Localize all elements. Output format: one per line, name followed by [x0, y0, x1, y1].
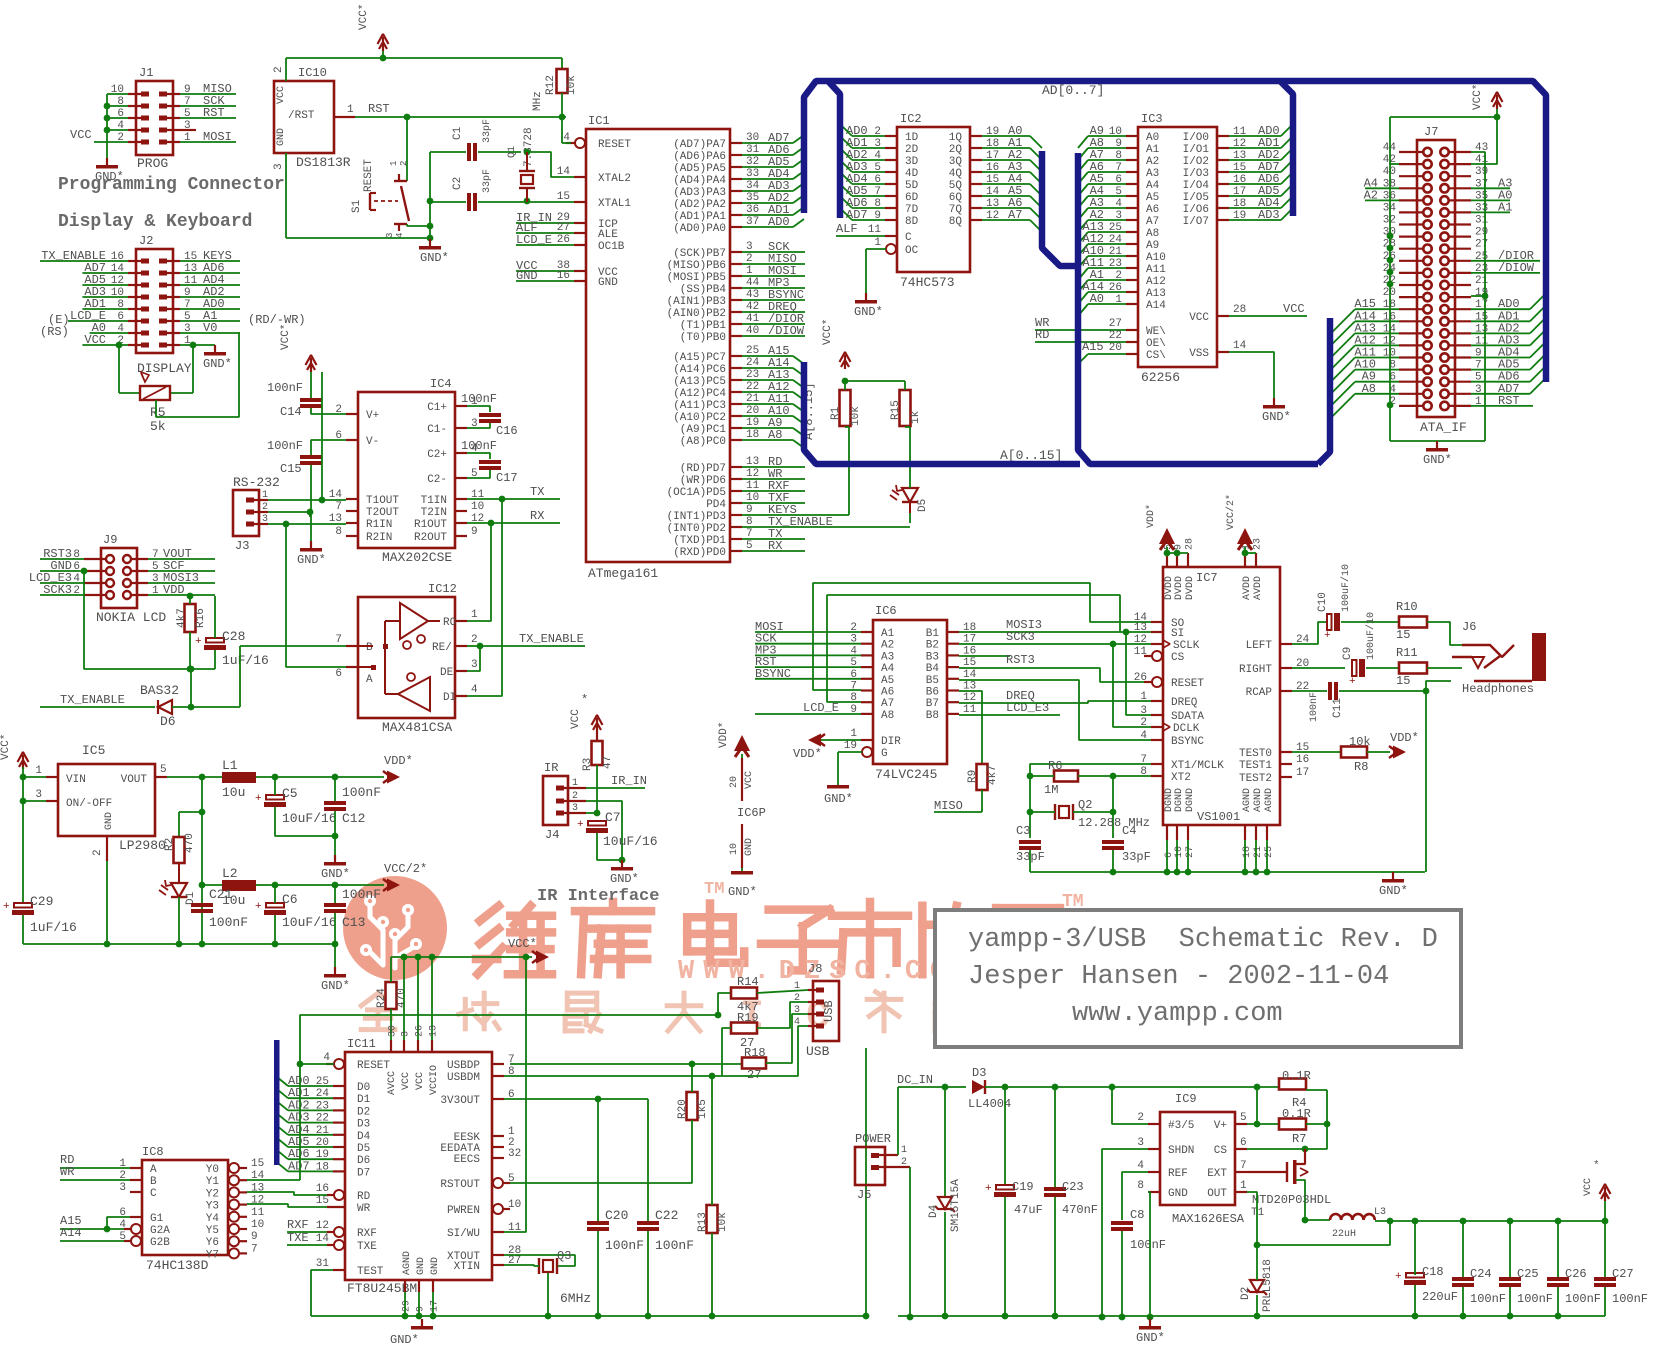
svg-text:B2: B2 — [926, 640, 939, 652]
svg-text:100uF/10: 100uF/10 — [1340, 564, 1352, 612]
svg-text:(AD3)PA3: (AD3)PA3 — [673, 187, 726, 199]
svg-text:SHDN: SHDN — [1168, 1145, 1194, 1157]
svg-text:IC12: IC12 — [428, 582, 457, 596]
svg-text:RESET: RESET — [363, 159, 375, 192]
svg-text:TX_ENABLE: TX_ENABLE — [519, 632, 584, 646]
svg-text:470: 470 — [396, 988, 408, 1008]
svg-text:A14: A14 — [1146, 300, 1166, 312]
svg-text:TM: TM — [704, 880, 724, 899]
svg-text:A10: A10 — [1146, 252, 1166, 264]
svg-text:RST3: RST3 — [1006, 653, 1035, 667]
svg-text:3: 3 — [794, 1005, 800, 1016]
svg-text:15: 15 — [251, 1158, 264, 1170]
svg-text:REF: REF — [1168, 1168, 1188, 1180]
svg-text:VSS: VSS — [1189, 348, 1209, 360]
svg-text:(AD6)PA6: (AD6)PA6 — [673, 151, 726, 163]
svg-text:V+: V+ — [1214, 1120, 1227, 1132]
svg-text:AGND: AGND — [1253, 788, 1264, 812]
svg-text:GND*: GND* — [1423, 453, 1452, 467]
svg-text:47: 47 — [602, 756, 614, 769]
svg-text:1k: 1k — [910, 410, 922, 424]
svg-text:R7: R7 — [1292, 1132, 1306, 1146]
svg-text:D5: D5 — [357, 1143, 370, 1155]
svg-text:RCAP: RCAP — [1246, 687, 1273, 699]
svg-text:MHz: MHz — [532, 91, 544, 111]
svg-text:Y3: Y3 — [206, 1201, 219, 1213]
svg-text:100nF: 100nF — [461, 439, 497, 453]
svg-text:AVDD: AVDD — [1253, 576, 1264, 600]
svg-text:4k7: 4k7 — [176, 608, 188, 628]
svg-text:Programming Connector: Programming Connector — [58, 175, 285, 195]
svg-text:XTIN: XTIN — [454, 1261, 480, 1273]
svg-text:1: 1 — [471, 609, 478, 621]
svg-text:IC3: IC3 — [1141, 112, 1163, 126]
svg-text:R10: R10 — [1396, 600, 1418, 614]
svg-text:C11: C11 — [1332, 698, 1344, 718]
svg-text:C22: C22 — [655, 1208, 678, 1223]
svg-text:VCC*: VCC* — [1472, 84, 1484, 110]
svg-text:3: 3 — [385, 233, 395, 238]
svg-text:AD[0..7]: AD[0..7] — [1042, 83, 1104, 98]
svg-text:*: * — [581, 693, 588, 707]
svg-text:TEST: TEST — [357, 1266, 384, 1278]
svg-text:IC11: IC11 — [347, 1037, 376, 1051]
svg-text:74LVC245: 74LVC245 — [875, 767, 937, 782]
svg-text:LEFT: LEFT — [1246, 640, 1273, 652]
svg-text:2Q: 2Q — [949, 144, 963, 156]
svg-text:POWER: POWER — [855, 1132, 891, 1146]
svg-text:TXE: TXE — [287, 1231, 309, 1245]
svg-text:RSTOUT: RSTOUT — [440, 1179, 480, 1191]
svg-text:27: 27 — [1185, 846, 1196, 858]
svg-text:A8: A8 — [881, 710, 894, 722]
svg-text:R11: R11 — [1396, 646, 1418, 660]
svg-text:GND*: GND* — [728, 885, 757, 899]
svg-text:#3/5: #3/5 — [1168, 1120, 1194, 1132]
svg-text:GND: GND — [416, 1257, 427, 1275]
svg-text:2: 2 — [471, 634, 478, 646]
svg-text:3: 3 — [119, 1182, 126, 1194]
svg-text:+: + — [1349, 676, 1356, 688]
svg-text:Display & Keyboard: Display & Keyboard — [58, 212, 252, 232]
svg-text:C14: C14 — [280, 405, 302, 419]
svg-text:27: 27 — [1475, 239, 1488, 251]
svg-text:RD: RD — [1035, 328, 1049, 342]
svg-text:100nF: 100nF — [1130, 1238, 1166, 1252]
svg-text:VCC: VCC — [70, 128, 92, 142]
svg-text:GND*: GND* — [203, 357, 232, 371]
svg-text:I/O7: I/O7 — [1183, 216, 1209, 228]
svg-text:3: 3 — [35, 789, 42, 801]
svg-text:100nF: 100nF — [1517, 1292, 1553, 1306]
svg-text:5k: 5k — [150, 419, 166, 434]
svg-text:+: + — [577, 819, 584, 831]
svg-text:ON/-OFF: ON/-OFF — [66, 798, 112, 810]
svg-text:6Q: 6Q — [949, 192, 963, 204]
svg-text:15: 15 — [316, 1195, 329, 1207]
svg-text:A4: A4 — [881, 663, 895, 675]
svg-text:47uF: 47uF — [1014, 1203, 1043, 1217]
svg-text:MAX202CSE: MAX202CSE — [382, 550, 452, 565]
svg-text:A3: A3 — [1146, 168, 1159, 180]
svg-text:4Q: 4Q — [949, 168, 963, 180]
svg-text:A0: A0 — [1146, 132, 1159, 144]
svg-text:9: 9 — [471, 526, 478, 538]
svg-text:C18: C18 — [1422, 1265, 1444, 1279]
svg-text:SI/WU: SI/WU — [447, 1228, 480, 1240]
svg-text:USB: USB — [806, 1044, 830, 1059]
svg-text:RD: RD — [357, 1191, 371, 1203]
svg-text:J1: J1 — [139, 66, 153, 80]
svg-text:A7: A7 — [1146, 216, 1159, 228]
svg-text:B6: B6 — [926, 687, 939, 699]
svg-text:GND*: GND* — [420, 251, 449, 265]
svg-text:G2B: G2B — [150, 1237, 170, 1249]
svg-text:PROG: PROG — [137, 156, 168, 171]
svg-text:(A9)PC1: (A9)PC1 — [680, 424, 727, 436]
svg-text:Q2: Q2 — [1078, 798, 1092, 812]
svg-text:C7: C7 — [605, 810, 621, 825]
svg-text:(T1)PB1: (T1)PB1 — [680, 320, 727, 332]
svg-text:1: 1 — [389, 161, 399, 166]
svg-text:1: 1 — [901, 1145, 907, 1156]
svg-text:(A10)PC2: (A10)PC2 — [673, 412, 726, 424]
svg-text:DIR: DIR — [881, 736, 901, 748]
svg-text:8: 8 — [335, 526, 342, 538]
svg-text:8: 8 — [1137, 1180, 1144, 1192]
svg-text:29: 29 — [402, 1300, 413, 1312]
svg-text:VDD*: VDD* — [793, 747, 822, 761]
svg-text:AVDD: AVDD — [1242, 576, 1253, 600]
svg-text:R12: R12 — [545, 75, 557, 95]
svg-text:2: 2 — [399, 161, 409, 166]
svg-text:27: 27 — [1109, 318, 1122, 330]
svg-text:OUT: OUT — [1207, 1188, 1227, 1200]
svg-text:Q1: Q1 — [507, 146, 518, 158]
svg-text:GND*: GND* — [1262, 410, 1291, 424]
svg-text:V+: V+ — [366, 410, 379, 422]
svg-text:I/O4: I/O4 — [1183, 180, 1210, 192]
svg-text:31: 31 — [316, 1258, 330, 1270]
svg-text:G1: G1 — [150, 1213, 164, 1225]
svg-text:100nF: 100nF — [267, 439, 303, 453]
svg-text:100nF: 100nF — [209, 915, 248, 930]
svg-text:IC6P: IC6P — [737, 806, 766, 820]
svg-text:VCC: VCC — [570, 709, 582, 729]
svg-text:10k: 10k — [850, 406, 862, 426]
svg-text:VCC: VCC — [1583, 1178, 1594, 1196]
svg-text:VOUT: VOUT — [121, 774, 148, 786]
svg-text:C6: C6 — [282, 892, 298, 907]
svg-text:XT1/MCLK: XT1/MCLK — [1171, 760, 1224, 772]
svg-text:L1: L1 — [222, 758, 238, 773]
svg-text:IC8: IC8 — [142, 1145, 164, 1159]
svg-text:7D: 7D — [905, 204, 919, 216]
svg-text:14: 14 — [1233, 340, 1247, 352]
svg-text:R3: R3 — [582, 758, 594, 771]
svg-text:GND: GND — [598, 277, 618, 289]
svg-text:32: 32 — [508, 1148, 521, 1160]
svg-text:17: 17 — [430, 1300, 441, 1312]
svg-text:100nF: 100nF — [1470, 1292, 1506, 1306]
svg-text:SDATA: SDATA — [1171, 711, 1204, 723]
svg-text:PD4: PD4 — [706, 499, 726, 511]
svg-text:A7: A7 — [881, 698, 894, 710]
svg-text:14: 14 — [963, 669, 977, 681]
svg-text:VDD*: VDD* — [1390, 731, 1419, 745]
svg-text:D3: D3 — [357, 1119, 370, 1131]
svg-text:10uF/16: 10uF/16 — [603, 834, 658, 849]
svg-text:B7: B7 — [926, 698, 939, 710]
svg-text:yampp-3/USB Schematic Rev. D: yampp-3/USB Schematic Rev. D — [968, 925, 1438, 955]
svg-text:SCLK: SCLK — [1173, 640, 1200, 652]
svg-text:3: 3 — [401, 1031, 412, 1037]
svg-text:26: 26 — [415, 1025, 426, 1037]
svg-text:GND*: GND* — [610, 872, 639, 886]
svg-text:A2: A2 — [1146, 156, 1159, 168]
svg-text:1: 1 — [874, 237, 881, 249]
svg-text:VCC: VCC — [1189, 312, 1209, 324]
svg-text:D5: D5 — [917, 499, 929, 512]
svg-text:AGND: AGND — [402, 1251, 413, 1275]
svg-text:A6: A6 — [1146, 204, 1159, 216]
svg-text:ALE: ALE — [598, 229, 618, 241]
svg-text:BSYNC: BSYNC — [1171, 736, 1204, 748]
svg-text:3D: 3D — [905, 156, 919, 168]
svg-text:+: + — [1324, 630, 1331, 642]
svg-text:100nF: 100nF — [1309, 692, 1320, 722]
svg-text:(AD4)PA4: (AD4)PA4 — [673, 175, 726, 187]
svg-text:B1: B1 — [926, 628, 940, 640]
svg-text:C: C — [905, 232, 912, 244]
svg-text:C28: C28 — [222, 629, 245, 644]
svg-text:R1IN: R1IN — [366, 519, 392, 531]
svg-text:(AIN1)PB3: (AIN1)PB3 — [667, 296, 726, 308]
svg-text:B4: B4 — [926, 663, 940, 675]
svg-text:3: 3 — [273, 163, 285, 170]
svg-text:D1: D1 — [357, 1094, 371, 1106]
svg-text:VCC: VCC — [415, 1072, 426, 1090]
svg-text:A3: A3 — [881, 651, 894, 663]
svg-text:IR Interface: IR Interface — [537, 887, 659, 906]
svg-text:R8: R8 — [1354, 760, 1368, 774]
svg-text:21: 21 — [1253, 846, 1264, 858]
svg-text:MAX481CSA: MAX481CSA — [382, 720, 452, 735]
svg-text:A5: A5 — [1146, 192, 1159, 204]
svg-text:D6: D6 — [357, 1155, 370, 1167]
svg-text:1uF/16: 1uF/16 — [222, 653, 269, 668]
svg-text:GND*: GND* — [1379, 884, 1408, 898]
svg-text:RIGHT: RIGHT — [1239, 664, 1272, 676]
svg-text:Headphones: Headphones — [1462, 682, 1534, 696]
svg-text:10u: 10u — [222, 785, 245, 800]
svg-text:/RST: /RST — [288, 110, 315, 122]
svg-text:14: 14 — [316, 1233, 330, 1245]
svg-text:C25: C25 — [1517, 1267, 1539, 1281]
svg-text:C1-: C1- — [427, 424, 447, 436]
svg-text:L3: L3 — [1374, 1207, 1386, 1218]
svg-text:A11: A11 — [1146, 264, 1166, 276]
svg-text:12: 12 — [1134, 634, 1147, 646]
svg-text:1uF/16: 1uF/16 — [30, 920, 77, 935]
svg-text:AGND: AGND — [1242, 788, 1253, 812]
svg-text:SI: SI — [1171, 628, 1184, 640]
svg-text:5D: 5D — [905, 180, 919, 192]
svg-text:IC5: IC5 — [82, 743, 105, 758]
svg-text:27: 27 — [747, 1068, 761, 1082]
svg-text:USB: USB — [822, 1000, 836, 1022]
svg-text:62256: 62256 — [1141, 370, 1180, 385]
svg-text:C9: C9 — [1342, 647, 1354, 660]
svg-text:9: 9 — [251, 1231, 258, 1243]
svg-text:5Q: 5Q — [949, 180, 963, 192]
svg-text:XTAL2: XTAL2 — [598, 173, 631, 185]
svg-text:Y5: Y5 — [206, 1225, 219, 1237]
svg-text:+: + — [255, 793, 262, 805]
svg-text:NOKIA LCD: NOKIA LCD — [96, 610, 166, 625]
svg-text:CS: CS — [1171, 652, 1185, 664]
svg-text:+: + — [195, 636, 202, 648]
svg-text:12.288 MHz: 12.288 MHz — [1078, 816, 1150, 830]
svg-text:20: 20 — [729, 776, 740, 788]
svg-text:4: 4 — [1137, 1160, 1144, 1172]
svg-text:CS: CS — [1214, 1145, 1228, 1157]
svg-text:TXE: TXE — [357, 1241, 377, 1253]
svg-text:DGND: DGND — [1174, 788, 1185, 812]
svg-text:AVCC: AVCC — [387, 1071, 398, 1095]
svg-text:2: 2 — [901, 1157, 907, 1168]
svg-text:J3: J3 — [235, 539, 249, 553]
svg-text:GND*: GND* — [297, 553, 326, 567]
svg-text:IC10: IC10 — [298, 66, 327, 80]
svg-text:WR: WR — [357, 1203, 371, 1215]
svg-text:B3: B3 — [926, 651, 939, 663]
svg-text:VCC: VCC — [401, 1072, 412, 1090]
svg-text:R2IN: R2IN — [366, 532, 392, 544]
svg-text:11: 11 — [251, 1207, 265, 1219]
svg-text:10k: 10k — [717, 1212, 729, 1232]
svg-text:R24: R24 — [376, 988, 388, 1008]
svg-text:DS1813R: DS1813R — [296, 155, 351, 170]
svg-text:5: 5 — [160, 764, 167, 776]
svg-text:2: 2 — [262, 502, 268, 513]
svg-text:C3: C3 — [1016, 824, 1030, 838]
svg-text:T2IN: T2IN — [421, 507, 447, 519]
svg-text:C24: C24 — [1470, 1267, 1492, 1281]
svg-text:10: 10 — [729, 843, 740, 855]
svg-text:GND*: GND* — [321, 979, 350, 993]
svg-text:C4: C4 — [1122, 824, 1136, 838]
svg-text:G2A: G2A — [150, 1225, 170, 1237]
svg-text:A: A — [150, 1164, 157, 1176]
svg-text:C: C — [150, 1188, 157, 1200]
svg-text:VDD*: VDD* — [384, 754, 413, 768]
svg-text:(RD)PD7: (RD)PD7 — [680, 463, 726, 475]
svg-text:SM15T15A: SM15T15A — [950, 1179, 962, 1232]
svg-text:VCC/2*: VCC/2* — [1225, 494, 1237, 530]
svg-text:9: 9 — [416, 1306, 427, 1312]
svg-text:25: 25 — [1264, 846, 1275, 858]
svg-text:VCC*: VCC* — [280, 324, 292, 350]
svg-text:VCC: VCC — [1283, 302, 1305, 316]
svg-text:33pF: 33pF — [482, 169, 493, 193]
svg-text:RXF: RXF — [357, 1228, 377, 1240]
svg-text:C23: C23 — [1062, 1180, 1084, 1194]
svg-text:C12: C12 — [342, 811, 365, 826]
svg-text:C21: C21 — [209, 887, 233, 902]
svg-text:GND: GND — [744, 838, 755, 856]
svg-text:ALF: ALF — [836, 222, 858, 236]
svg-text:C27: C27 — [1612, 1267, 1634, 1281]
svg-text:10uF/16: 10uF/16 — [282, 811, 337, 826]
svg-text:23: 23 — [1253, 538, 1264, 550]
svg-text:R1OUT: R1OUT — [414, 519, 447, 531]
svg-text:B5: B5 — [926, 675, 939, 687]
svg-text:3: 3 — [471, 659, 478, 671]
svg-text:22uH: 22uH — [1332, 1229, 1356, 1240]
svg-text:(SS)PB4: (SS)PB4 — [680, 284, 727, 296]
svg-text:I/O1: I/O1 — [1183, 144, 1210, 156]
svg-text:+: + — [3, 901, 10, 913]
svg-text:VCC*: VCC* — [0, 734, 12, 760]
svg-text:10k: 10k — [566, 75, 578, 95]
svg-text:RESET: RESET — [598, 139, 631, 151]
svg-text:(A15)PC7: (A15)PC7 — [673, 352, 726, 364]
svg-text:(RD/-WR): (RD/-WR) — [248, 313, 306, 327]
svg-text:(MOSI)PB5: (MOSI)PB5 — [667, 272, 726, 284]
svg-text:*: * — [1593, 1160, 1600, 1172]
svg-text:D2: D2 — [357, 1106, 370, 1118]
svg-text:74HC573: 74HC573 — [900, 275, 955, 290]
svg-text:100nF: 100nF — [342, 887, 381, 902]
svg-text:C10: C10 — [1317, 592, 1329, 612]
svg-text:R14: R14 — [737, 975, 759, 989]
svg-text:A8: A8 — [1146, 228, 1159, 240]
svg-text:VS1001: VS1001 — [1197, 810, 1240, 824]
svg-text:C19: C19 — [1012, 1180, 1034, 1194]
svg-text:12: 12 — [316, 1220, 329, 1232]
svg-text:1D: 1D — [905, 132, 919, 144]
svg-text:RO: RO — [443, 617, 457, 629]
svg-text:(A8)PC0: (A8)PC0 — [680, 436, 726, 448]
svg-text:10k: 10k — [1349, 735, 1371, 749]
svg-text:6D: 6D — [905, 192, 919, 204]
svg-text:Q3: Q3 — [557, 1249, 571, 1263]
svg-text:(RS): (RS) — [40, 325, 69, 339]
svg-text:C1+: C1+ — [427, 402, 447, 414]
svg-text:XTAL1: XTAL1 — [598, 198, 631, 210]
svg-text:GND*: GND* — [321, 867, 350, 881]
svg-text:TEST0: TEST0 — [1239, 748, 1272, 760]
svg-text:7: 7 — [251, 1243, 258, 1255]
svg-text:6: 6 — [1240, 1137, 1247, 1149]
svg-text:VDD*: VDD* — [1145, 504, 1157, 528]
svg-text:1k5: 1k5 — [697, 1099, 709, 1119]
svg-text:TEST2: TEST2 — [1239, 773, 1272, 785]
svg-text:ATmega161: ATmega161 — [588, 566, 658, 581]
svg-text:T1IN: T1IN — [421, 495, 447, 507]
svg-text:USBDM: USBDM — [447, 1072, 480, 1084]
svg-text:J7: J7 — [1424, 125, 1438, 139]
svg-text:29: 29 — [1475, 227, 1488, 239]
svg-text:13: 13 — [1134, 622, 1147, 634]
svg-text:0.1R: 0.1R — [1282, 1069, 1311, 1083]
svg-text:33pF: 33pF — [1122, 850, 1151, 864]
svg-text:100nF: 100nF — [1565, 1292, 1601, 1306]
svg-text:R6: R6 — [1048, 759, 1062, 773]
svg-text:(A11)PC3: (A11)PC3 — [673, 400, 726, 412]
svg-text:RE/: RE/ — [432, 642, 452, 654]
